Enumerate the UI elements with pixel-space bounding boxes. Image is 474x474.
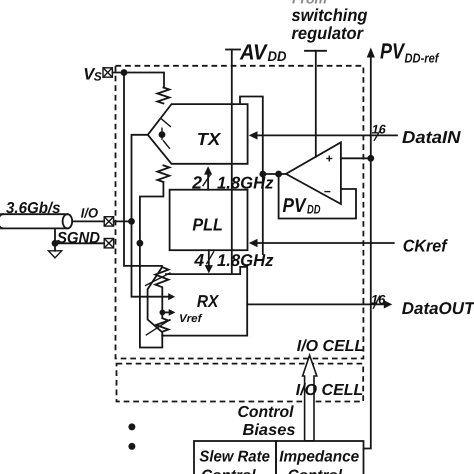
resistor R2 (TX lower termination) bbox=[157, 165, 169, 182]
label Control Biases bbox=[238, 404, 296, 439]
svg-text:PLL: PLL bbox=[192, 214, 223, 234]
resistor R3 (RX upper termination, adjustable) bbox=[145, 267, 171, 312]
svg-text:16: 16 bbox=[371, 292, 386, 307]
block PLL bbox=[170, 190, 248, 251]
node Vref with arrow bbox=[160, 309, 203, 325]
svg-text:PV: PV bbox=[380, 39, 406, 64]
svg-text:4: 4 bbox=[193, 250, 204, 270]
svg-text:I/O: I/O bbox=[81, 205, 99, 220]
op-amp + input mark bbox=[326, 156, 332, 162]
node: switch common bbox=[159, 131, 166, 138]
node: shield junction bbox=[52, 240, 59, 247]
pad SGND bbox=[104, 239, 113, 248]
dashed I/O cell boundary box 2 bbox=[117, 364, 364, 402]
wire coax shield to SGND pad bbox=[55, 228, 104, 250]
node: Vs junction bbox=[121, 69, 128, 76]
svg-text:2: 2 bbox=[191, 172, 202, 192]
signal DataIN: arrowhead into TX, bus line bbox=[249, 122, 461, 147]
svg-text:DataOUT: DataOUT bbox=[402, 299, 474, 318]
svg-text:RX: RX bbox=[197, 291, 220, 311]
block Impedance Control bbox=[276, 441, 364, 474]
svg-text:Vref: Vref bbox=[179, 313, 203, 325]
wire R2 to SGND rail and to RX lower resistor bbox=[140, 182, 164, 348]
svg-text:S: S bbox=[94, 70, 102, 84]
svg-text:1.8GHz: 1.8GHz bbox=[217, 173, 274, 192]
svg-text:CKref: CKref bbox=[403, 236, 449, 255]
wire AVDD vertical bbox=[231, 50, 233, 275]
wire from switching regulator to op-amp U1 (top bar + vertical) bbox=[305, 51, 326, 157]
svg-text:DD-ref: DD-ref bbox=[405, 50, 440, 65]
svg-text:SGND: SGND bbox=[57, 230, 100, 247]
node: I/O junction bbox=[128, 218, 135, 225]
label PVDD bbox=[283, 195, 321, 217]
signal DataOUT: line from RX, arrowhead right, label bbox=[247, 292, 474, 318]
label AVDD bbox=[239, 40, 286, 65]
svg-text:regulator: regulator bbox=[292, 23, 365, 43]
block Slew Rate Control bbox=[194, 441, 276, 474]
svg-text:DataIN: DataIN bbox=[402, 127, 461, 147]
svg-text:I/O CELL: I/O CELL bbox=[296, 382, 364, 399]
ground symbol bbox=[48, 251, 61, 258]
svg-text:DD: DD bbox=[268, 48, 287, 64]
wire op-amp + input to PVDD-ref bbox=[341, 157, 371, 159]
bus PLL to TX: arrow up, slash, label 2/1.8GHz bbox=[191, 166, 274, 192]
power net PVDD-ref: up arrow, vertical wire down to Impedance Control bbox=[364, 48, 375, 449]
wire coax core to I/O pad bbox=[72, 220, 104, 222]
svg-text:PV: PV bbox=[283, 195, 307, 217]
svg-text:switching: switching bbox=[292, 5, 368, 25]
control biases hollow arrow bbox=[303, 355, 317, 441]
svg-text:TX: TX bbox=[197, 129, 222, 149]
svg-text:Biases: Biases bbox=[243, 422, 296, 439]
node: + input on PVDD-ref line bbox=[367, 155, 374, 162]
wire Vs vertical down to RX upper resistor bbox=[124, 73, 162, 268]
svg-text:AV: AV bbox=[239, 40, 269, 65]
wire op-amp feedback loop bbox=[279, 174, 356, 219]
coax cable 3.6Gb/s bbox=[0, 200, 72, 228]
label: switching regulator bbox=[292, 5, 368, 43]
block RX (with top-right tab) bbox=[162, 267, 247, 336]
svg-text:I/O CELL: I/O CELL bbox=[297, 338, 365, 355]
dashed I/O cell boundary box 1 bbox=[116, 66, 364, 359]
wire TX supply tab to op-amp output bbox=[240, 97, 263, 255]
svg-text:Control: Control bbox=[288, 467, 343, 474]
op-amp U1 triangle (pointing left) bbox=[286, 142, 341, 204]
node: SGND junction bbox=[137, 240, 144, 247]
wire op-amp output bbox=[263, 173, 286, 175]
svg-text:Slew Rate: Slew Rate bbox=[199, 448, 270, 465]
node: output junction 1 bbox=[259, 171, 266, 178]
op-amp - input mark bbox=[324, 191, 330, 193]
svg-text:Control: Control bbox=[238, 404, 295, 421]
block TX (pentagon) bbox=[148, 104, 248, 164]
svg-text:Control: Control bbox=[201, 467, 256, 474]
ellipsis dots (more I/O cells) bbox=[128, 423, 135, 450]
resistor R1 (TX upper termination) bbox=[157, 88, 169, 104]
label Vs bbox=[83, 66, 102, 84]
wire I/O net: pad to TX switch and down to RX input bbox=[114, 135, 176, 300]
label PVDD-ref bbox=[380, 39, 440, 66]
svg-text:DD: DD bbox=[307, 202, 321, 216]
signal CKref: arrowhead into PLL, line, label bbox=[249, 236, 449, 255]
svg-text:Impedance: Impedance bbox=[279, 448, 359, 465]
bus PLL to RX: arrow down, slash, label 4/1.8GHz bbox=[193, 250, 274, 273]
switch S1 (TX termination select) marks bbox=[161, 119, 171, 149]
bypass bracket (RX termination switch path) bbox=[148, 268, 162, 332]
pad Vs bbox=[103, 68, 112, 77]
resistor R4 (RX lower termination, adjustable) bbox=[146, 312, 171, 335]
wire Vs pad to TX upper resistor bbox=[112, 73, 164, 88]
power rail AVDD tick bbox=[226, 49, 240, 51]
node: output junction 2 (feedback) bbox=[275, 171, 282, 178]
pad I/O bbox=[104, 217, 113, 226]
svg-text:16: 16 bbox=[372, 122, 387, 136]
